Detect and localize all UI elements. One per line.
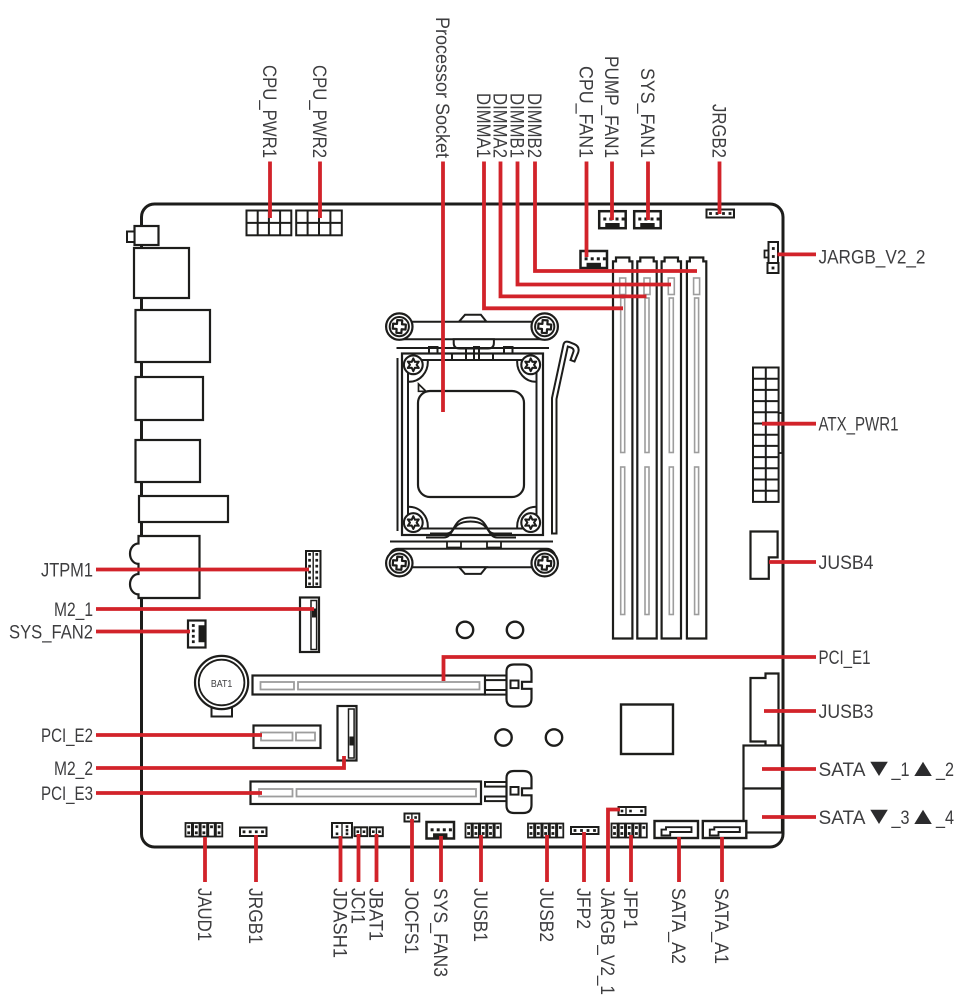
leader PUMP_FAN1	[610, 162, 614, 221]
svg-text:M2_2: M2_2	[54, 759, 93, 780]
leader JTPM1	[96, 568, 309, 572]
label JOCFS1	[400, 888, 421, 954]
label JUSB3	[819, 702, 874, 723]
leader JUSB3	[764, 709, 816, 713]
leader M2_1	[96, 607, 314, 611]
header JUSB1	[466, 824, 501, 838]
leader SATA_A1	[720, 837, 724, 882]
leader JOCFS1	[410, 819, 414, 882]
PCI_E3 latch	[485, 771, 532, 813]
label JTPM1	[41, 561, 93, 582]
svg-text:SATA_A1: SATA_A1	[710, 888, 731, 964]
rear IO port block3	[136, 377, 204, 420]
header JFP2	[571, 827, 599, 834]
leader JUSB2	[545, 835, 549, 882]
label SYS_FAN2	[9, 623, 93, 644]
svg-text:Processor Socket: Processor Socket	[431, 17, 452, 159]
connector JUSB3	[751, 674, 779, 746]
leader DIMMB2	[535, 162, 697, 272]
label JUSB4	[819, 553, 874, 574]
DIMM slot DIMMA1	[613, 258, 632, 639]
label JARGB_V2_1	[596, 888, 617, 995]
label PUMP_FAN1	[600, 56, 621, 158]
leader JBAT1	[375, 834, 379, 882]
svg-text:JRGB2: JRGB2	[708, 104, 729, 158]
leader JFP1	[629, 835, 633, 882]
label JUSB2	[535, 888, 556, 942]
label PCI_E3	[41, 784, 93, 805]
leader CPU_PWR1	[268, 162, 272, 219]
battery BAT1	[195, 656, 248, 717]
header JUSB2	[528, 824, 563, 838]
svg-text:JFP1: JFP1	[619, 888, 640, 929]
leader SATA_3_4	[762, 815, 816, 819]
svg-text:_1: _1	[891, 760, 910, 781]
svg-text:JFP2: JFP2	[572, 888, 593, 929]
chipset	[621, 705, 673, 755]
leader SYS_FAN2	[96, 630, 190, 634]
label SATA_A1	[710, 888, 731, 964]
label ATX_PWR1	[819, 415, 899, 436]
rear IO port block1	[134, 248, 189, 298]
rear IO audio jacks	[130, 536, 200, 598]
header JARGB_V2_2	[765, 242, 779, 273]
PCIe slot PCI_E3	[251, 782, 482, 805]
label SATA_3_4	[819, 808, 955, 829]
leader ATX_PWR1	[762, 422, 816, 426]
motherboard outline	[142, 204, 784, 847]
label DIMMA1	[472, 93, 493, 158]
connector SATA_3_4	[744, 789, 783, 833]
mounting hole 1	[457, 622, 473, 638]
svg-text:JARGB_V2_1: JARGB_V2_1	[596, 888, 617, 995]
svg-text:ATX_PWR1: ATX_PWR1	[819, 415, 899, 436]
leader CPU_PWR2	[318, 162, 322, 219]
connector CPU_PWR2	[296, 211, 342, 236]
svg-text:JRGB1: JRGB1	[244, 888, 265, 944]
mounting hole 2	[507, 622, 523, 638]
leader DIMMA2	[501, 162, 647, 297]
header JRGB1	[240, 828, 267, 837]
CPU socket top bracket	[386, 313, 558, 348]
svg-text:JARGB_V2_2: JARGB_V2_2	[819, 247, 926, 268]
mounting hole 4	[546, 729, 562, 745]
CPU socket lever	[552, 342, 579, 534]
header JTPM1	[306, 551, 321, 587]
svg-text:JTPM1: JTPM1	[41, 561, 93, 582]
leader CPU_FAN1	[585, 162, 589, 258]
label SYS_FAN3	[429, 888, 450, 977]
svg-text:SATA_A2: SATA_A2	[667, 888, 688, 964]
CPU socket frame	[397, 347, 550, 535]
leader JFP2	[582, 832, 586, 882]
label JFP1	[619, 888, 640, 929]
connector SATA_A2	[655, 821, 699, 838]
leader PCI_E1	[444, 657, 817, 681]
label JDASH1	[329, 888, 350, 958]
header JRGB2	[707, 210, 735, 218]
label M2_2	[54, 759, 93, 780]
svg-text:M2_1: M2_1	[54, 600, 93, 621]
leader JDASH1	[339, 836, 343, 882]
rear IO port block4	[136, 440, 201, 482]
CPU socket bottom bracket	[386, 549, 558, 577]
label PCI_E1	[819, 648, 871, 669]
label JAUD1	[193, 888, 214, 941]
label DIMMA2	[489, 93, 510, 158]
svg-text:PCI_E1: PCI_E1	[819, 648, 871, 669]
leader JUSB4	[769, 560, 816, 564]
svg-text:SATA: SATA	[819, 760, 866, 781]
label CPU_FAN1	[575, 66, 596, 158]
svg-text:CPU_FAN1: CPU_FAN1	[575, 66, 596, 158]
PCIe slot PCI_E2	[254, 726, 321, 749]
svg-text:JAUD1: JAUD1	[193, 888, 214, 941]
leader Processor Socket	[441, 162, 445, 413]
svg-text:JUSB3: JUSB3	[819, 702, 874, 723]
svg-text:PCI_E2: PCI_E2	[41, 726, 93, 747]
svg-text:SATA: SATA	[819, 808, 866, 829]
header JOCFS1	[405, 814, 420, 822]
label JUSB1	[469, 888, 490, 942]
header JCI1	[355, 827, 368, 836]
fan header CPU_FAN1	[581, 251, 608, 268]
rear IO port small tab	[127, 226, 159, 245]
label DIMMB2	[523, 93, 544, 158]
rear IO port block2	[136, 310, 211, 362]
svg-text:_4: _4	[935, 808, 954, 829]
svg-text:JBAT1: JBAT1	[365, 888, 386, 941]
label PCI_E2	[41, 726, 93, 747]
fan header SYS_FAN3	[427, 822, 455, 839]
DIMM slot DIMMB2	[687, 258, 706, 639]
DIMM slot DIMMB1	[662, 258, 681, 639]
leader JCI1	[357, 834, 361, 882]
leader SATA_1_2	[762, 767, 816, 771]
label SATA_1_2	[819, 760, 955, 781]
label CPU_PWR1	[258, 65, 279, 158]
leader SATA_A2	[677, 837, 681, 882]
leader SYS_FAN3	[439, 836, 443, 882]
leader JARGB_V2_2	[778, 252, 817, 256]
svg-text:PCI_E3: PCI_E3	[41, 784, 93, 805]
svg-text:SYS_FAN2: SYS_FAN2	[9, 623, 93, 644]
header JARGB_V2_1	[619, 807, 646, 815]
label Processor Socket	[431, 17, 452, 159]
CPU socket bottom spring	[390, 518, 553, 548]
leader JUSB1	[479, 835, 483, 882]
PCIe slot PCI_E1	[253, 676, 486, 695]
header JFP1	[612, 824, 647, 838]
svg-text:BAT1: BAT1	[211, 679, 233, 690]
leader PCI_E2	[96, 733, 262, 737]
svg-text:JOCFS1: JOCFS1	[400, 888, 421, 954]
label SYS_FAN1	[636, 68, 657, 158]
svg-text:JDASH1: JDASH1	[329, 888, 350, 958]
fan header SYS_FAN1	[634, 211, 661, 228]
leader DIMMA1	[484, 162, 623, 309]
DIMM slot DIMMA2	[637, 258, 656, 639]
leader DIMMB1	[518, 162, 672, 285]
leader JRGB2	[718, 162, 722, 215]
svg-text:JUSB2: JUSB2	[535, 888, 556, 942]
connector ATX_PWR1	[753, 368, 782, 502]
PCI_E1 latch	[485, 665, 532, 707]
label DIMMB1	[506, 93, 527, 158]
leader SYS_FAN1	[646, 162, 650, 221]
svg-text:JCI1: JCI1	[347, 888, 368, 924]
svg-text:JUSB1: JUSB1	[469, 888, 490, 942]
leader JAUD1	[203, 837, 207, 882]
svg-text:SYS_FAN1: SYS_FAN1	[636, 68, 657, 158]
label CPU_PWR2	[308, 65, 329, 158]
svg-text:JUSB4: JUSB4	[819, 553, 874, 574]
svg-text:CPU_PWR1: CPU_PWR1	[258, 65, 279, 158]
label JRGB1	[244, 888, 265, 944]
leader PCI_E3	[96, 791, 262, 795]
connector JUSB4	[751, 532, 778, 579]
svg-text:PUMP_FAN1: PUMP_FAN1	[600, 56, 621, 158]
leader JARGB_V2_1	[608, 810, 620, 883]
connector SATA_1_2	[744, 746, 783, 789]
connector CPU_PWR1	[247, 211, 292, 236]
svg-text:_3: _3	[891, 808, 910, 829]
label SATA_A2	[667, 888, 688, 964]
label JARGB_V2_2	[819, 247, 926, 268]
header JDASH1	[332, 823, 352, 838]
svg-text:_2: _2	[935, 760, 954, 781]
label JCI1	[347, 888, 368, 924]
header JBAT1	[370, 827, 383, 836]
svg-text:DIMMB2: DIMMB2	[523, 93, 544, 158]
mounting hole 3	[495, 729, 511, 745]
header JAUD1	[186, 823, 223, 837]
leader JRGB1	[254, 835, 258, 882]
leader M2_2	[96, 756, 344, 768]
label JBAT1	[365, 888, 386, 941]
rear IO port block5	[139, 496, 228, 522]
label M2_1	[54, 600, 93, 621]
connector SATA_A1	[703, 821, 747, 838]
fan header SYS_FAN2	[188, 621, 206, 648]
fan header PUMP_FAN1	[599, 211, 626, 228]
label JFP2	[572, 888, 593, 929]
M.2 slot M2_2	[338, 706, 357, 761]
label JRGB2	[708, 104, 729, 158]
M.2 slot M2_1	[300, 598, 319, 653]
svg-text:CPU_PWR2: CPU_PWR2	[308, 65, 329, 158]
svg-text:SYS_FAN3: SYS_FAN3	[429, 888, 450, 977]
